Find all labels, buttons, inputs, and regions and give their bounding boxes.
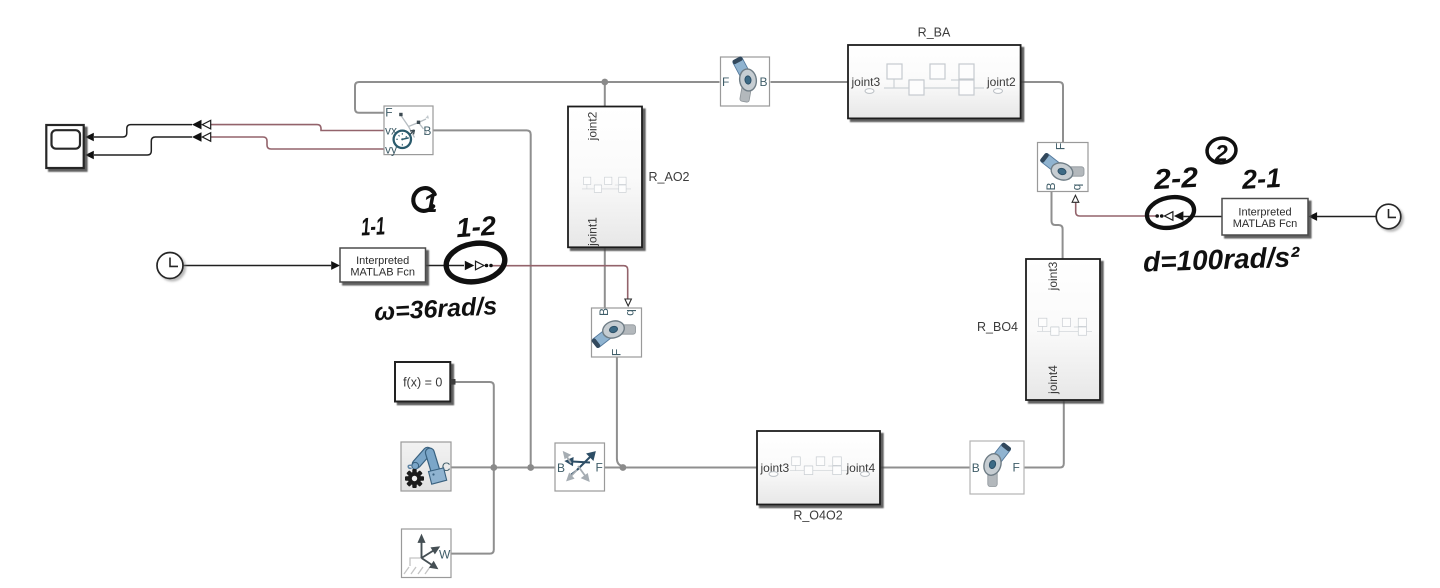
clock 2 xyxy=(1376,204,1401,229)
svg-text:R_BO4: R_BO4 xyxy=(977,320,1018,334)
svg-text:joint2: joint2 xyxy=(586,111,600,141)
wire: sensor F to top rail to top joint F xyxy=(355,82,720,113)
junction dot bottom rail at middle joint column xyxy=(620,464,627,471)
arrowhead into MATLAB Fcn 1 xyxy=(331,261,340,270)
wire: sensor B right and down to bottom rail xyxy=(433,130,531,467)
svg-text:1-1: 1-1 xyxy=(360,212,385,241)
svg-text:joint2: joint2 xyxy=(986,75,1016,89)
bottom-right revolute joint block xyxy=(970,441,1024,494)
svg-text:1-2: 1-2 xyxy=(455,211,497,244)
signal wire: MATLAB Fcn 2 to converter 2-2 xyxy=(1184,216,1223,218)
signal wire: MATLAB Fcn 1 to converter 1-2 xyxy=(426,265,465,267)
wire: bottom-right joint F up to R_BO4 joint4 xyxy=(1024,400,1064,468)
svg-text:Interpreted: Interpreted xyxy=(356,255,409,267)
handwritten ellipse around converter 2-2 xyxy=(1144,193,1196,232)
Interpreted MATLAB Fcn block 1 xyxy=(340,248,426,282)
svg-text:B: B xyxy=(557,461,565,475)
svg-text:B: B xyxy=(423,124,431,138)
arrowhead into MATLAB Fcn 2 xyxy=(1308,212,1317,221)
R_BO4 subsystem block xyxy=(1026,259,1100,400)
svg-text:d=100rad/s²: d=100rad/s² xyxy=(1142,241,1300,277)
scope block xyxy=(46,125,83,168)
arrowhead into scope input 2 xyxy=(85,151,94,160)
junction dot bottom rail at sensor column xyxy=(527,464,534,471)
R_O4O2 subsystem block xyxy=(757,431,880,505)
sensor gauge icon xyxy=(394,131,411,148)
svg-text:joint3: joint3 xyxy=(1046,261,1060,291)
svg-text:R_BA: R_BA xyxy=(918,26,951,40)
wire: middle joint F down to bottom rail xyxy=(617,357,623,468)
Simulink-PS converter 1-2 icon xyxy=(465,261,493,271)
R_BA subsystem block xyxy=(848,45,1021,118)
PS wire: converter2 to sensor vy xyxy=(211,137,385,149)
middle revolute joint block xyxy=(591,308,642,357)
wire: f(x)=0 port right and down through rail to world frame W xyxy=(451,382,494,554)
svg-text:q: q xyxy=(622,309,636,316)
wire: right joint B down to R_BO4 joint3 xyxy=(1052,192,1063,260)
wire: top rail branch down to R_AO2 joint2 xyxy=(604,82,606,107)
transform sensor block xyxy=(384,106,433,157)
wire: R_AO2 joint1 down to middle joint B xyxy=(604,247,606,308)
svg-text:Interpreted: Interpreted xyxy=(1238,207,1291,219)
wire: R_O4O2 joint4 to bottom-right joint B xyxy=(880,467,970,469)
svg-text:R_O4O2: R_O4O2 xyxy=(793,509,842,523)
svg-text:2-2: 2-2 xyxy=(1152,162,1199,196)
junction dot bottom rail at f(x) column xyxy=(490,464,497,471)
robot arm icon xyxy=(417,452,428,465)
wire: top joint B to R_BA joint3 xyxy=(771,81,849,83)
PS arrowhead at q of right joint xyxy=(1072,195,1079,202)
svg-text:f(x) = 0: f(x) = 0 xyxy=(403,376,442,390)
svg-text:joint3: joint3 xyxy=(851,75,881,89)
R_AO2 subsystem block xyxy=(568,107,642,248)
PS arrowhead at q of middle joint xyxy=(625,299,632,306)
f(x)=0 solver block xyxy=(395,362,456,402)
wire: transform F to R_O4O2 joint3 xyxy=(605,467,758,469)
handwritten circled 1 xyxy=(409,184,441,218)
PS wire: converter 2-2 to right joint q xyxy=(1076,202,1156,216)
top revolute joint block xyxy=(721,55,770,106)
svg-text:2-1: 2-1 xyxy=(1240,163,1282,195)
handwritten ellipse around converter 1-2 xyxy=(443,239,507,286)
signal wire: clock2 to MATLAB Fcn 2 xyxy=(1317,216,1376,218)
svg-text:R_AO2: R_AO2 xyxy=(649,170,690,184)
world frame block xyxy=(402,529,452,578)
right revolute joint block xyxy=(1038,143,1089,192)
wire: mechanism C to junction xyxy=(451,466,494,468)
svg-text:joint4: joint4 xyxy=(1046,365,1060,395)
signal wire: clock1 to MATLAB Fcn 1 xyxy=(183,265,331,267)
wire: bottom rail junction to B of transform block xyxy=(494,467,555,469)
svg-text:F: F xyxy=(1054,143,1068,150)
svg-text:B: B xyxy=(972,461,980,475)
wire: R_BA joint2 to right joint F xyxy=(1021,82,1063,143)
svg-text:B: B xyxy=(1044,182,1058,190)
sensor frame icon xyxy=(401,116,426,138)
clock 1 xyxy=(157,253,183,279)
PS-Simulink converter 1 icon xyxy=(192,120,211,130)
svg-text:MATLAB Fcn: MATLAB Fcn xyxy=(1233,218,1298,230)
signal wire: converter1 to scope input 1 xyxy=(94,125,192,137)
rigid transform block B-F xyxy=(555,443,605,491)
PS wire: converter1 to sensor vx xyxy=(211,125,385,131)
svg-text:B: B xyxy=(597,308,611,316)
PS wire: converter 1-2 to middle joint q xyxy=(493,266,628,299)
mechanism configuration block xyxy=(401,442,451,491)
Interpreted MATLAB Fcn block 2 xyxy=(1222,199,1308,236)
junction dot top rail xyxy=(601,79,608,86)
svg-text:F: F xyxy=(610,349,624,356)
svg-text:B: B xyxy=(760,75,768,89)
svg-text:MATLAB Fcn: MATLAB Fcn xyxy=(350,267,415,279)
svg-text:W: W xyxy=(439,547,451,561)
svg-text:joint1: joint1 xyxy=(586,217,600,247)
gear icon xyxy=(405,469,424,488)
Simulink-PS converter 2-2 icon xyxy=(1155,211,1183,221)
svg-text:F: F xyxy=(385,106,392,120)
svg-text:F: F xyxy=(1013,460,1020,474)
handwritten circled 2 xyxy=(1205,136,1237,166)
svg-text:q: q xyxy=(1070,184,1084,191)
arrowhead into scope input 1 xyxy=(85,133,94,142)
svg-text:F: F xyxy=(596,460,603,474)
PS-Simulink converter 2 icon xyxy=(192,132,211,142)
svg-text:F: F xyxy=(722,75,729,89)
signal wire: converter2 to scope input 2 xyxy=(94,137,192,155)
